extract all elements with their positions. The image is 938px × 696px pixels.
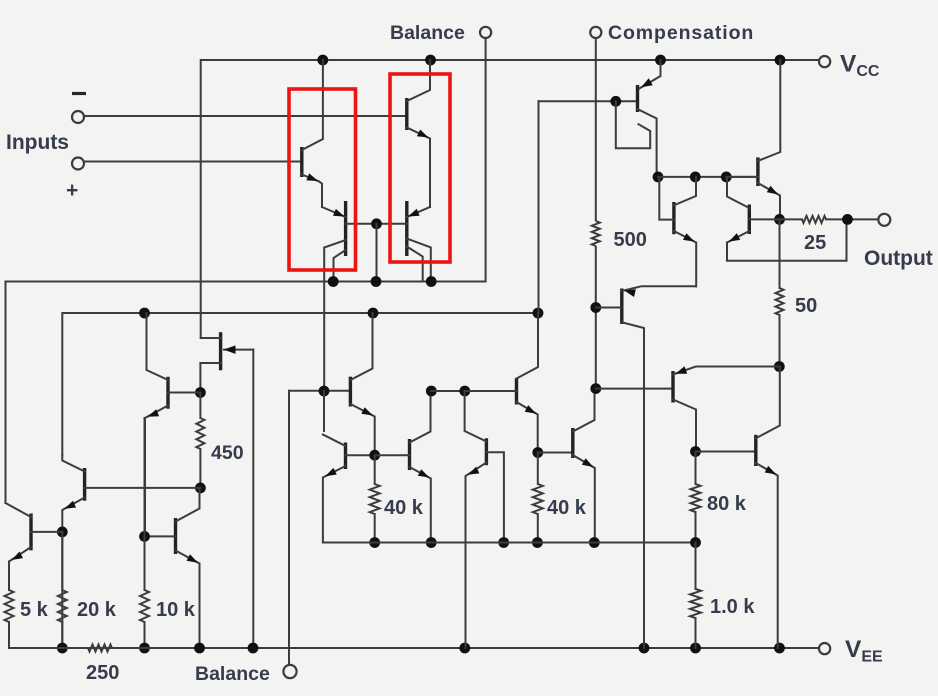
svg-text:10 k: 10 k: [156, 599, 196, 621]
transistor Q22: [756, 367, 780, 649]
wire Q8 base-collector loop: [616, 101, 650, 148]
svg-text:50: 50: [795, 295, 817, 317]
node Q8 base loop junction: [610, 96, 621, 107]
wire y=177 Q14 base rail: [658, 176, 758, 178]
transistor Q7: [465, 391, 504, 648]
node Q8 emitter on VCC rail: [655, 55, 666, 66]
node 10k bottom on VEE rail: [139, 643, 150, 654]
wire output to terminal: [780, 218, 879, 220]
transistor Q6: [375, 391, 431, 543]
node 80k bottom on mid rail: [690, 537, 701, 548]
transistor Q1: [302, 60, 323, 207]
wire mid rail y=542.5: [323, 542, 696, 544]
node 40k-left bottom on mid rail: [369, 537, 380, 548]
wire Q15 emitter loop: [727, 219, 847, 260]
wire 20k legs: [61, 532, 63, 648]
wire non-inverting input to Q1 base: [85, 161, 302, 163]
terminal Balance top: [480, 27, 491, 38]
resistor 500: [592, 221, 600, 246]
wire Q17 base: [538, 452, 573, 454]
node Q3 collector-A on bias rail: [328, 276, 339, 287]
transistor Q4: [407, 201, 431, 282]
node base tie on bias rail: [371, 276, 382, 287]
svg-text:80 k: 80 k: [707, 493, 747, 515]
resistor 50: [776, 288, 784, 315]
node 40k-right bottom on mid rail: [532, 537, 543, 548]
resistor 25: [802, 216, 826, 223]
wire Q11 emitter to 10k: [144, 418, 146, 536]
resistor 1.0k: [690, 589, 701, 618]
node 50 ohm bottom junction: [774, 361, 785, 372]
resistor 80k: [691, 484, 701, 512]
svg-text:40 k: 40 k: [547, 497, 587, 519]
node Q7 emitter on VEE rail: [459, 643, 470, 654]
node Q6 collector junction: [426, 386, 437, 397]
node 450-line tap on y=313: [139, 308, 150, 319]
wire Q3/Q4 base tie: [346, 223, 407, 225]
node Q7 collector junction: [459, 386, 470, 397]
node Q3 collector-B junction: [319, 386, 330, 397]
node JFET gate on VEE rail: [248, 643, 259, 654]
terminal Output: [878, 214, 890, 226]
wire 80k legs: [695, 452, 697, 543]
wire bias rail y=281.5: [6, 282, 485, 504]
svg-text:1.0 k: 1.0 k: [710, 596, 755, 618]
node 450 bottom junction: [195, 483, 206, 494]
transistor Q12: [62, 455, 200, 648]
wire x=538 line upper: [538, 101, 540, 313]
resistor 5k: [5, 590, 14, 622]
svg-text:500: 500: [614, 229, 647, 251]
highlight box red Q2/Q4: [390, 74, 450, 262]
transistor Q11: [145, 313, 200, 536]
svg-text:Compensation: Compensation: [608, 22, 754, 44]
node Q5 collector on y=313: [368, 308, 379, 319]
node 50-line on VEE rail: [774, 643, 785, 654]
wire 50 ohm top: [779, 219, 781, 288]
wire 1.0k legs: [695, 543, 697, 649]
node Q6 emitter on mid rail: [426, 537, 437, 548]
wire y=391 segment: [431, 390, 465, 392]
wire 40k-right legs: [537, 453, 539, 543]
node Q1 collector on VCC rail: [317, 55, 328, 66]
node Q7 base leg on mid rail: [498, 537, 509, 548]
highlight box red Q1/Q3: [289, 89, 356, 270]
node Q13 base junction: [57, 527, 68, 538]
node output node: [774, 214, 785, 225]
wire y=390.8 to Q5 base: [289, 390, 350, 392]
node x=538 line on y=313: [533, 308, 544, 319]
node Q4 collector-B on bias rail: [426, 276, 437, 287]
transistor Q9: [465, 313, 538, 453]
wire Compensation to 500 ohm: [595, 38, 597, 220]
node Q17 collector junction y=388.6: [590, 383, 601, 394]
wire balance-bottom line: [288, 391, 290, 665]
svg-text:25: 25: [804, 232, 826, 254]
resistor 250 in VEE rail: [88, 645, 112, 652]
svg-text:450: 450: [211, 442, 244, 464]
terminal Compensation: [590, 27, 601, 38]
terminal inverting input: [72, 111, 84, 123]
terminal VCC: [819, 56, 830, 67]
svg-text:Inputs: Inputs: [6, 131, 69, 154]
node x=538 Q17 base junction: [532, 447, 543, 458]
transistor Q20: [673, 366, 779, 451]
terminal Balance bottom: [283, 665, 296, 678]
node JFET source junction: [195, 387, 206, 398]
node Q3/Q4 base junction: [371, 218, 382, 229]
node 10k top junction: [139, 531, 150, 542]
wire Q22 base: [696, 451, 756, 453]
resistor 40k left: [370, 484, 380, 514]
node Q15 collector junction: [721, 172, 732, 183]
svg-text:40 k: 40 k: [384, 497, 424, 519]
wire VCC rail: [201, 60, 819, 338]
resistor 20k: [58, 590, 67, 622]
wire Balance top to bias rail: [485, 38, 487, 281]
terminal VEE: [819, 643, 830, 654]
transistor Q13: [6, 503, 63, 562]
node Q16 base junction: [590, 302, 601, 313]
transistor Q5b: [323, 435, 375, 543]
transistor Q5: [350, 313, 374, 455]
svg-text:+: +: [66, 179, 78, 202]
transistor Q2: [407, 60, 430, 207]
wire 40k-left legs: [374, 455, 376, 542]
resistor 450: [196, 418, 204, 449]
node after 25 ohm: [842, 214, 853, 225]
transistor Q16: [596, 286, 696, 648]
wire 500 down to junctions: [595, 247, 597, 389]
node Q8 collector junction: [653, 172, 664, 183]
node 20k bottom on VEE rail: [57, 643, 68, 654]
node Q17 emitter on mid rail: [589, 537, 600, 548]
node 1.0k bottom on VEE rail: [690, 643, 701, 654]
wire 450 legs: [199, 393, 201, 488]
svg-text:20 k: 20 k: [77, 599, 117, 621]
wire 50 ohm bottom: [779, 315, 781, 367]
svg-text:Output: Output: [864, 247, 933, 270]
svg-text:250: 250: [86, 662, 119, 684]
wire 10k legs: [144, 536, 146, 648]
node Q10 emitter on VEE rail: [194, 643, 205, 654]
wire mirror rail y=313: [62, 313, 538, 455]
terminal non-inverting input: [72, 158, 84, 170]
transistor Q18: [659, 177, 696, 287]
node 80k top junction: [690, 446, 701, 457]
wire JFET gate to VEE rail: [252, 350, 254, 648]
node Q18 collector junction: [690, 172, 701, 183]
wire x=324 to Q5b collector: [323, 391, 325, 431]
wire inverting input to Q2 base: [84, 115, 407, 117]
transistor Q10: [145, 488, 200, 648]
wire y=388.6 to Q20 base: [596, 388, 673, 390]
wire base node to bias rail: [376, 224, 378, 282]
svg-text:Balance: Balance: [390, 22, 465, 44]
transistor J1 JFET: [200, 332, 253, 392]
transistor Q17: [573, 389, 595, 543]
wire VEE rail: [9, 647, 819, 649]
transistor Q3: [322, 201, 346, 391]
wire y=101.3 Q8 base wire: [539, 100, 638, 102]
node 40k-left top junction: [369, 450, 380, 461]
transistor Q8: [638, 60, 661, 177]
svg-text:5 k: 5 k: [20, 599, 49, 621]
node Q16 collector on VEE rail: [639, 643, 650, 654]
resistor 10k: [140, 590, 149, 622]
svg-text:Balance: Balance: [195, 663, 270, 685]
label minus sign: [72, 92, 86, 95]
node Q14 collector on VCC rail: [775, 55, 786, 66]
wire 5k bottom into VEE rail: [8, 562, 10, 649]
node Q2 collector on VCC rail: [425, 55, 436, 66]
transistor Q15: [727, 177, 780, 243]
resistor 40k right: [533, 484, 543, 514]
transistor Q14: [726, 60, 780, 219]
